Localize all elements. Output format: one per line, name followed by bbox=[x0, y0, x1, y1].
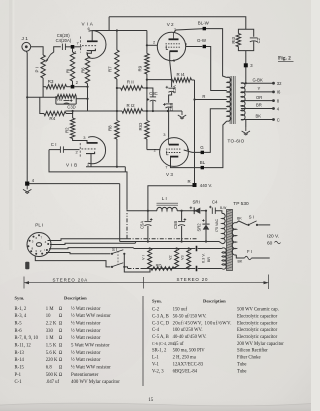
wire R line to primary center tap bbox=[195, 94, 227, 100]
resistor R12 bbox=[117, 103, 147, 113]
socket PL1 bbox=[27, 223, 51, 257]
svg-text:J 1: J 1 bbox=[22, 36, 29, 42]
wire node1 to V1A grid bbox=[74, 41, 81, 47]
svg-text:½ Watt WW resistor: ½ Watt WW resistor bbox=[71, 366, 111, 371]
parts table right header bbox=[152, 298, 226, 303]
wire V1B cathode rail bbox=[86, 154, 125, 172]
wire primary bottom BK to F1 bbox=[236, 255, 244, 264]
wire to C3C bbox=[147, 88, 153, 97]
svg-text:OR: OR bbox=[256, 95, 262, 100]
wire to L1 corner bbox=[125, 172, 127, 210]
capacitor C5B bbox=[173, 210, 186, 242]
svg-text:Ω: Ω bbox=[59, 358, 63, 363]
svg-text:C-2: C-2 bbox=[152, 308, 160, 313]
resistor R2 bbox=[64, 111, 87, 143]
resistor R1 bbox=[66, 48, 75, 85]
svg-text:6.8: 6.8 bbox=[46, 366, 53, 371]
svg-text:TP 530: TP 530 bbox=[233, 201, 249, 207]
svg-text:Ω: Ω bbox=[59, 344, 63, 349]
svg-text:½ Watt resistor: ½ Watt resistor bbox=[71, 358, 101, 363]
svg-text:Sym.: Sym. bbox=[15, 296, 25, 301]
wire V1A cathode to R6 bbox=[88, 51, 92, 54]
wire V2 grid bbox=[146, 40, 158, 47]
svg-text:C-3 A, B: C-3 A, B bbox=[152, 315, 169, 320]
node R 440V bbox=[188, 179, 213, 188]
svg-text:STEREO 20A: STEREO 20A bbox=[53, 278, 89, 283]
wire S1 pole 2 bbox=[124, 267, 127, 269]
svg-text:32: 32 bbox=[277, 81, 282, 86]
wire heater rail bottom bbox=[128, 268, 222, 270]
capacitor C3B bbox=[163, 103, 174, 111]
tube V2 (6BQ5) bbox=[157, 22, 188, 63]
transformer TP530 heater winding 6.3V bbox=[222, 248, 226, 269]
svg-text:R7: R7 bbox=[107, 66, 112, 72]
svg-text:Filter Choke: Filter Choke bbox=[237, 356, 261, 361]
wire 440V node to C5A junction bbox=[148, 186, 193, 211]
capacitor C1 coupling bbox=[49, 142, 80, 153]
secondary tap BK common bbox=[241, 114, 280, 123]
node BL bbox=[200, 160, 206, 169]
parts table right rows bbox=[152, 308, 284, 375]
resistor R15 hum balance bbox=[151, 264, 174, 271]
svg-text:S I: S I bbox=[112, 247, 117, 252]
secondary tap BR 4 bbox=[241, 103, 280, 112]
wire plate rail to R7 R9 bbox=[109, 29, 147, 31]
dimension line STEREO 20 bbox=[144, 275, 269, 290]
label 120V 60Hz bbox=[267, 234, 281, 247]
node 2 bbox=[71, 80, 79, 89]
svg-text:F I: F I bbox=[247, 249, 252, 254]
tube V1B (1/2 12AX7) bbox=[66, 135, 106, 168]
svg-text:40-40 uf/450 WV.: 40-40 uf/450 WV. bbox=[173, 335, 207, 340]
svg-text:G-BK: G-BK bbox=[253, 77, 263, 82]
svg-text:R-15: R-15 bbox=[15, 366, 25, 371]
wire primary top BK to S1 bbox=[236, 216, 247, 225]
svg-text:2.2 K: 2.2 K bbox=[46, 322, 57, 327]
svg-text:Potentiometer: Potentiometer bbox=[71, 373, 99, 378]
dimension line STEREO 20A bbox=[24, 277, 144, 289]
svg-text:R II: R II bbox=[127, 80, 134, 85]
svg-text:V-1: V-1 bbox=[152, 362, 160, 367]
wire cathode bus y111 bbox=[66, 110, 118, 112]
svg-text:Tube: Tube bbox=[237, 362, 246, 367]
svg-text:150 uuf: 150 uuf bbox=[173, 308, 188, 313]
wire BL-W to output transformer primary top bbox=[206, 29, 227, 78]
connector bars to heater winding bbox=[196, 246, 198, 272]
svg-text:R: R bbox=[188, 179, 191, 184]
svg-text:L I: L I bbox=[162, 196, 167, 201]
transformer TO-610 core bbox=[230, 76, 235, 124]
transformer TP530 primary winding bbox=[232, 223, 236, 255]
wire J1 to P1 bbox=[31, 47, 43, 55]
svg-text:C-5 A, B: C-5 A, B bbox=[152, 335, 169, 340]
svg-text:R-3, 4: R-3, 4 bbox=[15, 314, 27, 319]
svg-text:C5B: C5B bbox=[173, 221, 178, 229]
svg-text:C: C bbox=[277, 117, 280, 122]
svg-text:R-14: R-14 bbox=[15, 358, 25, 363]
svg-text:SR2: SR2 bbox=[197, 223, 202, 232]
wire R9 bottom to C3A junction bbox=[146, 79, 172, 81]
rectifier SR1 bbox=[190, 199, 206, 214]
wire R6 bottom to cathode bus bbox=[86, 86, 88, 111]
svg-text:Ω: Ω bbox=[59, 336, 63, 341]
svg-text:Electrolytic capacitor: Electrolytic capacitor bbox=[237, 328, 278, 333]
resistor R8 bbox=[108, 88, 120, 167]
svg-text:½ Watt resistor: ½ Watt resistor bbox=[71, 307, 101, 312]
wire V3 cathode pin3 bbox=[163, 111, 168, 138]
svg-text:C3D: C3D bbox=[67, 105, 75, 110]
svg-text:C-1: C-1 bbox=[15, 380, 23, 385]
svg-text:BL: BL bbox=[200, 160, 206, 165]
svg-text:6BQ5/EL-84: 6BQ5/EL-84 bbox=[173, 369, 198, 374]
svg-text:R6: R6 bbox=[80, 67, 85, 73]
fuse F1 bbox=[245, 249, 252, 260]
svg-text:2 H, 250 ma: 2 H, 250 ma bbox=[173, 356, 197, 361]
svg-text:100 uf/250 WV.: 100 uf/250 WV. bbox=[173, 328, 203, 333]
svg-text:R-13: R-13 bbox=[15, 351, 25, 356]
svg-text:5 Watt WW resistor: 5 Watt WW resistor bbox=[71, 344, 110, 349]
svg-text:P I: P I bbox=[35, 67, 40, 72]
svg-text:Sym.: Sym. bbox=[152, 298, 162, 303]
svg-text:Silicon Rectifier: Silicon Rectifier bbox=[237, 349, 268, 354]
svg-text:Electrolytic capacitor: Electrolytic capacitor bbox=[237, 315, 278, 320]
svg-text:I: I bbox=[44, 248, 45, 252]
wire node2 to R6 bbox=[74, 86, 87, 88]
svg-text:RI5: RI5 bbox=[156, 264, 162, 268]
svg-text:500 ma, 500 PIV: 500 ma, 500 PIV bbox=[173, 349, 206, 354]
ground symbol output transformer bbox=[242, 120, 250, 136]
wire S1 to heater rail bbox=[124, 254, 150, 272]
parts table left header bbox=[15, 296, 88, 301]
wire R10 to V3 grid bbox=[147, 149, 160, 151]
wire L1 left bbox=[127, 210, 157, 212]
svg-text:Electrolytic capacitor: Electrolytic capacitor bbox=[237, 321, 278, 326]
resistor R10 bbox=[138, 121, 149, 150]
wire V1A plate to top rail bbox=[92, 17, 109, 42]
resistor R7 bbox=[107, 31, 119, 89]
transformer TO-610 primary winding bbox=[227, 77, 231, 121]
svg-text:V2: V2 bbox=[169, 255, 173, 260]
node 4 bbox=[25, 178, 35, 186]
svg-text:R: R bbox=[202, 94, 205, 99]
svg-text:½ Watt resistor: ½ Watt resistor bbox=[71, 329, 101, 334]
svg-text:330: 330 bbox=[46, 329, 54, 334]
wire heater rail top bbox=[134, 248, 222, 250]
tube V1A (1/2 12AX7) bbox=[81, 22, 106, 59]
wire R5 box to R6 column bbox=[76, 98, 87, 100]
wire PL1 line 1 bbox=[48, 239, 128, 241]
svg-text:.047 uf: .047 uf bbox=[46, 380, 60, 385]
svg-text:Ω: Ω bbox=[59, 351, 63, 356]
resistor R14 bbox=[173, 72, 195, 82]
svg-text:BK: BK bbox=[238, 260, 243, 264]
svg-text:Ω: Ω bbox=[59, 373, 63, 378]
svg-text:V3: V3 bbox=[181, 255, 185, 260]
svg-text:RI3: RI3 bbox=[231, 36, 236, 43]
svg-text:1.5 K: 1.5 K bbox=[46, 344, 57, 349]
wire PL1 line 5 bbox=[35, 256, 110, 267]
svg-text:.15 uf: .15 uf bbox=[173, 342, 184, 347]
node 1 bbox=[71, 45, 78, 55]
svg-text:P-1: P-1 bbox=[15, 373, 22, 378]
svg-text:C5A: C5A bbox=[139, 221, 144, 229]
table divider bbox=[142, 296, 144, 386]
wire PL1 line 4 bbox=[46, 253, 111, 254]
svg-text:R-6: R-6 bbox=[15, 329, 23, 334]
wire P1 wiper to C6 bbox=[51, 47, 61, 55]
heater V1 bbox=[142, 247, 152, 268]
wire V3 screen to G node bbox=[184, 150, 203, 152]
svg-text:BK: BK bbox=[237, 216, 242, 220]
wire V2 cathode down bbox=[170, 51, 173, 80]
label TP530 bbox=[233, 201, 249, 207]
svg-text:BK: BK bbox=[256, 114, 262, 119]
ground symbol mid bbox=[178, 111, 186, 119]
svg-text:R9: R9 bbox=[138, 65, 143, 71]
svg-text:1 M: 1 M bbox=[46, 307, 55, 312]
svg-text:B-W: B-W bbox=[220, 206, 226, 210]
svg-text:Ω: Ω bbox=[59, 366, 63, 371]
svg-text:440 V.: 440 V. bbox=[200, 183, 212, 188]
wire L1 right to SR1 bbox=[177, 210, 196, 212]
svg-text:G: G bbox=[200, 145, 204, 150]
svg-text:C4(20A): C4(20A) bbox=[56, 38, 72, 43]
wire F1 to line bbox=[251, 257, 269, 259]
node BL-W bbox=[198, 20, 210, 30]
svg-text:STEREO 20: STEREO 20 bbox=[177, 277, 209, 282]
svg-text:½ Watt resistor: ½ Watt resistor bbox=[71, 351, 101, 356]
page number bbox=[148, 398, 154, 403]
resistor R11 bbox=[117, 80, 147, 91]
heater V3 bbox=[181, 247, 191, 269]
svg-text:20uf/450WV, 100uf/6WV.: 20uf/450WV, 100uf/6WV. bbox=[173, 321, 232, 326]
wire node4 rail bbox=[29, 183, 120, 185]
svg-text:RI: RI bbox=[66, 69, 71, 73]
svg-text:R4: R4 bbox=[49, 116, 55, 121]
svg-text:RIO: RIO bbox=[138, 122, 143, 130]
svg-text:R I4: R I4 bbox=[177, 72, 186, 77]
tube V3 (6BQ5) bbox=[154, 138, 190, 177]
blackened pin area PL1 bbox=[25, 262, 29, 270]
rectifier SR2 bbox=[197, 210, 210, 242]
capacitor C6 (C4,20A) coupling bbox=[56, 33, 72, 50]
svg-text:G-W: G-W bbox=[197, 38, 207, 43]
svg-text:S I: S I bbox=[249, 215, 254, 220]
wire G-W to primary tap bbox=[206, 47, 227, 91]
svg-text:PL I: PL I bbox=[35, 223, 43, 228]
svg-text:R-1, 2: R-1, 2 bbox=[15, 307, 27, 312]
svg-text:C3B: C3B bbox=[169, 103, 174, 111]
svg-text:1 M: 1 M bbox=[46, 336, 55, 341]
capacitor C3A bbox=[166, 80, 177, 103]
svg-text:10: 10 bbox=[46, 314, 51, 319]
svg-text:V 3: V 3 bbox=[166, 172, 173, 177]
svg-text:R2: R2 bbox=[64, 127, 69, 133]
wire V2 plate to BL-W bbox=[174, 29, 205, 33]
svg-text:I75 VAC: I75 VAC bbox=[215, 218, 219, 232]
capacitor C5A bbox=[139, 211, 152, 242]
potentiometer P1 bbox=[35, 55, 51, 79]
svg-text:12AX7/ECC-83: 12AX7/ECC-83 bbox=[173, 362, 204, 367]
switch S1 power bbox=[111, 247, 126, 268]
svg-text:Electrolytic capacitor: Electrolytic capacitor bbox=[237, 335, 278, 340]
label Fig. 2 bbox=[278, 56, 294, 62]
svg-text:Y: Y bbox=[258, 86, 261, 91]
resistor R5 with capacitor C3D (cathode network) bbox=[56, 94, 76, 109]
svg-text:C2: C2 bbox=[256, 37, 261, 43]
svg-text:C4: C4 bbox=[212, 199, 218, 204]
ground symbol input bbox=[23, 185, 31, 193]
wire input ground bus bbox=[26, 51, 28, 182]
node 3 bbox=[244, 51, 254, 85]
switch S1 mains bbox=[247, 215, 258, 226]
label 6.3V bbox=[201, 253, 211, 263]
svg-text:V I B: V I B bbox=[66, 163, 77, 168]
chassis boundary dash-dot bbox=[127, 213, 197, 239]
wire C1 loop to cathode rail bbox=[49, 150, 125, 172]
wire R9 column bbox=[146, 80, 148, 121]
svg-text:C3A: C3A bbox=[172, 85, 177, 93]
svg-text:C-3 C, D: C-3 C, D bbox=[152, 321, 170, 326]
svg-text:200 WV Mylar capacitor: 200 WV Mylar capacitor bbox=[237, 342, 284, 347]
svg-text:BR: BR bbox=[207, 257, 211, 262]
svg-text:Fig. 2: Fig. 2 bbox=[278, 56, 291, 62]
svg-text:R8: R8 bbox=[108, 125, 113, 131]
svg-text:Ω: Ω bbox=[59, 314, 63, 319]
svg-text:Ω: Ω bbox=[59, 329, 63, 334]
capacitor C3C bbox=[147, 91, 158, 111]
svg-text:R-5: R-5 bbox=[15, 322, 23, 327]
svg-text:R5: R5 bbox=[57, 97, 62, 102]
svg-text:V-2, 3: V-2, 3 bbox=[152, 369, 164, 374]
transformer TO-610 secondary winding bbox=[241, 83, 245, 120]
svg-text:R-7, 8, 9, 10: R-7, 8, 9, 10 bbox=[15, 336, 39, 341]
resistor R6 bbox=[80, 53, 89, 86]
wire BL to primary bottom bbox=[204, 121, 227, 168]
heater V2 bbox=[169, 247, 179, 268]
wire bus111 to C3B and ground bbox=[147, 110, 182, 112]
wire PL1 line 2 bbox=[50, 242, 136, 245]
wire S1 to line bbox=[258, 224, 270, 226]
svg-text:220 K: 220 K bbox=[46, 358, 58, 363]
svg-text:SRI: SRI bbox=[193, 199, 200, 204]
wire ground bus to R5 box bbox=[27, 96, 56, 98]
svg-text:5.6 K: 5.6 K bbox=[46, 351, 57, 356]
connector J1 input jack bbox=[22, 36, 31, 51]
svg-text:BR: BR bbox=[256, 103, 262, 108]
svg-text:TO-6IO: TO-6IO bbox=[228, 139, 245, 144]
svg-text:½ Watt resistor: ½ Watt resistor bbox=[71, 322, 101, 327]
resistor R4 bbox=[40, 97, 73, 121]
svg-text:½ Watt WW resistor: ½ Watt WW resistor bbox=[71, 314, 111, 319]
svg-text:Description: Description bbox=[203, 298, 226, 303]
wire P1 bottom to ground bus bbox=[42, 78, 44, 97]
svg-text:C3C: C3C bbox=[149, 91, 157, 96]
node G bbox=[200, 145, 204, 154]
svg-text:R3: R3 bbox=[48, 79, 54, 84]
svg-text:15: 15 bbox=[148, 398, 154, 403]
svg-text:V 2: V 2 bbox=[167, 22, 174, 27]
secondary tap Y 16 bbox=[241, 86, 281, 95]
svg-text:R-11, 12: R-11, 12 bbox=[15, 344, 32, 349]
wire down to power rail bbox=[119, 184, 121, 242]
resistor R9 bbox=[138, 31, 150, 80]
wire B+ column bbox=[193, 80, 195, 183]
svg-text:I20 V.: I20 V. bbox=[267, 234, 279, 240]
svg-text:6.3 V.: 6.3 V. bbox=[201, 253, 205, 263]
svg-text:Tube: Tube bbox=[237, 369, 246, 374]
secondary tap OR 8 bbox=[241, 95, 280, 104]
svg-text:400 WV Mylar capacitor: 400 WV Mylar capacitor bbox=[71, 380, 120, 385]
wire V2 screen to G-W bbox=[186, 46, 203, 48]
resistor R13 with capacitor C2 feedback loop bbox=[231, 29, 261, 50]
svg-text:V I: V I bbox=[142, 255, 146, 260]
svg-text:SR-1, 2: SR-1, 2 bbox=[152, 349, 167, 354]
label TO-610 bbox=[228, 139, 245, 144]
svg-text:50-50 uf/150 WV.: 50-50 uf/150 WV. bbox=[173, 315, 207, 320]
svg-text:½ Watt resistor: ½ Watt resistor bbox=[71, 336, 101, 341]
svg-text:C I: C I bbox=[51, 142, 57, 147]
node G-W bbox=[197, 38, 207, 48]
secondary tap G-BK 32 bbox=[241, 77, 282, 86]
svg-text:R I2: R I2 bbox=[127, 103, 136, 108]
svg-text:Ω: Ω bbox=[59, 307, 63, 312]
wire B- rail bbox=[120, 240, 222, 243]
svg-text:C-4: C-4 bbox=[152, 328, 160, 333]
svg-text:500 K: 500 K bbox=[46, 373, 58, 378]
resistor R3 bbox=[43, 79, 71, 89]
svg-text:60: 60 bbox=[267, 241, 273, 247]
wire G to primary tap bbox=[204, 109, 227, 153]
svg-text:500 WV Ceramic cap.: 500 WV Ceramic cap. bbox=[237, 308, 279, 313]
wire top rail to R13 C2 loop bbox=[109, 17, 246, 30]
wire PL1 line 3 bbox=[49, 248, 134, 249]
inductor L1 filter choke bbox=[157, 196, 179, 211]
wire V3 plate to BL node bbox=[171, 157, 203, 168]
parts table left rows bbox=[15, 307, 121, 385]
svg-text:L-1: L-1 bbox=[152, 356, 159, 361]
svg-text:BL-W: BL-W bbox=[198, 20, 210, 25]
capacitor C4 bbox=[209, 199, 226, 214]
svg-text:Description: Description bbox=[64, 296, 87, 301]
transformer TP530 secondary HV winding bbox=[215, 213, 225, 243]
svg-text:Ω: Ω bbox=[59, 322, 63, 327]
transformer TP530 core bbox=[227, 210, 233, 271]
